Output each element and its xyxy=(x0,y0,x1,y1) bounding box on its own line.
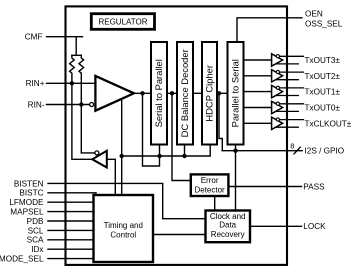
buffer TxOUT2 xyxy=(272,70,304,82)
svg-text:8: 8 xyxy=(290,142,294,151)
wire SCA xyxy=(48,239,94,241)
buffer TxOUT1 xyxy=(272,85,304,97)
svg-text:TxOUT3±: TxOUT3± xyxy=(305,56,341,65)
buffer TxCLKOUT xyxy=(272,117,304,129)
wire timing control to CDR xyxy=(153,234,206,236)
bubble U2 xyxy=(95,151,99,155)
inverting input bubble U1 xyxy=(90,103,94,107)
wire P2S output row 3 xyxy=(244,91,272,93)
svg-text:PDB: PDB xyxy=(27,217,44,226)
wire OEN OSS_SEL xyxy=(237,18,302,42)
svg-text:PASS: PASS xyxy=(303,182,325,191)
svg-text:MAPSEL: MAPSEL xyxy=(10,208,44,217)
block clock and data recovery xyxy=(206,211,251,243)
svg-text:LOCK: LOCK xyxy=(303,222,326,231)
wire P2S output row 2 xyxy=(244,75,272,77)
wire R2 leg through RIN+ to RIN- xyxy=(80,73,82,104)
buffer TxOUT3 xyxy=(272,54,304,66)
svg-text:HDCP Cipher: HDCP Cipher xyxy=(204,65,215,122)
svg-text:Parallel to Serial: Parallel to Serial xyxy=(230,59,241,127)
svg-text:I2S / GPIO: I2S / GPIO xyxy=(305,147,345,156)
wire PASS xyxy=(228,186,301,188)
svg-text:OSS_SEL: OSS_SEL xyxy=(305,20,343,29)
wire IDx xyxy=(48,248,94,250)
wire feedback to RIN+ node xyxy=(72,83,92,159)
node junction error detector tap xyxy=(170,91,174,95)
node junction bus left xyxy=(120,154,124,158)
wire U2 input from timing control xyxy=(107,159,116,195)
block P2S parallel to serial xyxy=(228,42,244,145)
svg-text:Error: Error xyxy=(201,176,219,185)
wire MAPSEL xyxy=(48,211,94,213)
wire RIN- node to U2 bubble xyxy=(81,105,95,153)
wire SCL xyxy=(48,229,94,231)
node junction P2S stub on I2S line xyxy=(233,149,237,153)
svg-text:Serial to Parallel: Serial to Parallel xyxy=(153,59,164,127)
svg-text:RIN-: RIN- xyxy=(28,100,45,109)
wire bottom bus xyxy=(122,145,211,157)
bus width slash xyxy=(294,147,300,154)
transistor-buffer U2 feedback driver xyxy=(92,151,107,168)
block DC balance decoder xyxy=(177,42,193,145)
node junction I2S tap xyxy=(217,91,221,95)
wire I2S GPIO line xyxy=(222,150,302,152)
svg-text:Clock and: Clock and xyxy=(210,212,246,221)
svg-text:TxCLKOUT±: TxCLKOUT± xyxy=(305,119,351,128)
svg-text:Recovery: Recovery xyxy=(211,230,245,239)
svg-text:DC Balance Decoder: DC Balance Decoder xyxy=(179,49,190,137)
wire P2S output row 5 xyxy=(244,122,272,124)
svg-text:TxOUT2±: TxOUT2± xyxy=(305,72,341,81)
wire MODE_SEL xyxy=(48,258,94,260)
node junction S2P stub xyxy=(157,154,161,158)
svg-text:OEN: OEN xyxy=(305,10,323,19)
op-amp U1 input comparator xyxy=(95,76,133,111)
wire connector S2P to DCBD xyxy=(167,92,177,94)
wire BISTEN to CDR xyxy=(48,183,206,218)
svg-text:TxOUT1±: TxOUT1± xyxy=(305,88,341,97)
wire PDB xyxy=(48,220,94,222)
chip boundary xyxy=(66,6,288,265)
svg-text:SCL: SCL xyxy=(28,226,44,235)
wire connector DCBD to HDCP xyxy=(193,92,202,94)
block HDCP cipher xyxy=(202,42,217,145)
block S2P serial to parallel xyxy=(151,42,167,145)
svg-text:Data: Data xyxy=(219,221,236,230)
wire error detector to CDR xyxy=(214,196,216,211)
wire tap down to error detector xyxy=(172,93,191,180)
wire BISTC xyxy=(48,193,96,195)
svg-text:REGULATOR: REGULATOR xyxy=(98,18,147,27)
node junction U1 output xyxy=(140,91,144,95)
svg-text:TxOUT0±: TxOUT0± xyxy=(305,104,341,113)
wire LFMODE xyxy=(48,201,94,203)
block timing and control xyxy=(94,195,154,262)
wire P2S bottom stub to CDR xyxy=(235,145,237,211)
wire S2P bottom stub xyxy=(159,145,161,157)
wire slope tap down to timing control xyxy=(121,99,123,195)
wire LOCK xyxy=(250,225,302,227)
svg-text:LFMODE: LFMODE xyxy=(9,198,44,207)
svg-text:IDx: IDx xyxy=(31,245,43,254)
resistor R2 xyxy=(79,55,84,73)
svg-text:MODE_SEL: MODE_SEL xyxy=(0,255,44,264)
svg-text:Timing and: Timing and xyxy=(104,221,143,230)
wire U1 output branch down xyxy=(143,93,160,166)
resistor R1 xyxy=(70,55,75,83)
svg-text:BISTC: BISTC xyxy=(19,189,43,198)
wire CMF drop to resistor bar xyxy=(72,37,81,56)
node junction DCBD stub xyxy=(182,154,186,158)
node junction RIN+ / R1 xyxy=(70,81,74,85)
wire P2S output row 1 xyxy=(244,59,272,61)
regulator box U5 xyxy=(91,14,154,30)
svg-text:SCA: SCA xyxy=(27,236,44,245)
node junction RIN- / R2 xyxy=(79,102,83,106)
svg-text:Control: Control xyxy=(110,231,136,240)
svg-text:RIN+: RIN+ xyxy=(26,79,45,88)
block error detector xyxy=(191,174,229,196)
svg-text:BISTEN: BISTEN xyxy=(14,179,44,188)
wire RIN- xyxy=(47,104,90,106)
svg-text:CMF: CMF xyxy=(25,33,43,42)
wire RIN+ xyxy=(47,82,96,84)
wire P2S output row 4 xyxy=(244,107,272,109)
wire tap step to I2S line xyxy=(219,93,222,150)
wire connector HDCP to P2S xyxy=(217,92,228,94)
wire CMF xyxy=(47,36,83,38)
buffer TxOUT0 xyxy=(272,101,304,113)
wire DCBD bottom stub xyxy=(184,145,186,157)
wire U1 output to S2P xyxy=(134,92,151,94)
svg-text:Detector: Detector xyxy=(194,185,225,194)
